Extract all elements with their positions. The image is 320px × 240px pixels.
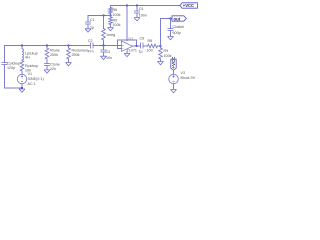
wire feedback loop — [118, 40, 137, 49]
svg-text:Cpickup: Cpickup — [7, 61, 20, 65]
ground under Ctone — [44, 70, 50, 73]
svg-text:4H: 4H — [25, 55, 30, 59]
svg-text:V3: V3 — [181, 71, 186, 75]
resistor Rpickup — [21, 59, 23, 62]
svg-text:1meg: 1meg — [106, 33, 115, 37]
svg-text:C2: C2 — [88, 39, 93, 43]
ground under V3 — [171, 90, 177, 93]
svg-text:22n: 22n — [50, 67, 56, 71]
wire mid signal rail — [5, 45, 90, 47]
wire to out flag — [161, 19, 171, 47]
svg-text:Ckabel: Ckabel — [173, 25, 185, 29]
capacitor Ctone — [44, 64, 50, 66]
node output junction — [159, 45, 161, 47]
resistor R6 — [110, 6, 112, 8]
node pickup junction — [21, 44, 23, 46]
node V+ rail junction — [126, 4, 128, 6]
svg-text:C4: C4 — [139, 7, 144, 11]
svg-text:100n: 100n — [139, 14, 147, 18]
flag out net label — [172, 16, 186, 21]
svg-text:120p: 120p — [7, 66, 15, 70]
ground under R9 — [158, 62, 164, 65]
node bias feed junction — [102, 14, 104, 16]
resistor Rvolumen — [68, 46, 70, 49]
svg-text:V1: V1 — [28, 72, 33, 76]
svg-text:Rtone: Rtone — [50, 48, 60, 52]
wire bias link — [88, 15, 111, 17]
capacitor C2 series — [91, 43, 94, 49]
ground under R5 — [108, 28, 114, 31]
resistor R9 load — [160, 46, 162, 48]
inductor Lpickup — [21, 46, 23, 49]
flag +VCC net label — [180, 3, 198, 8]
node volume junction — [67, 44, 69, 46]
node feedback junction — [135, 45, 137, 47]
svg-text:R5: R5 — [113, 18, 118, 22]
wire op-amp V+ supply — [126, 6, 128, 41]
capacitor C6 series — [141, 43, 144, 49]
svg-text:250k: 250k — [72, 53, 80, 57]
svg-text:R8: R8 — [148, 39, 153, 43]
svg-text:Ctone: Ctone — [50, 62, 60, 66]
svg-text:SINE(0 1): SINE(0 1) — [28, 77, 44, 81]
svg-text:R6: R6 — [113, 8, 118, 12]
resistor Rtone — [46, 46, 48, 49]
node tone junction — [46, 44, 48, 46]
wire top supply rail — [111, 5, 181, 7]
capacitor C1 — [87, 16, 89, 23]
resistor R8 series — [148, 44, 158, 48]
node out junction — [169, 17, 171, 19]
ground under C1 — [85, 29, 91, 32]
capacitor C3 — [103, 46, 105, 51]
ground under C3 — [101, 56, 107, 59]
node V1 ground junction — [21, 87, 23, 89]
svg-text:+VCC: +VCC — [171, 56, 176, 69]
flag +VCC at battery — [171, 59, 176, 70]
svg-text:TL071: TL071 — [127, 48, 137, 52]
svg-text:100k: 100k — [113, 13, 121, 17]
node opamp input junction — [102, 44, 104, 46]
svg-text:C6: C6 — [140, 37, 145, 41]
ground under Rvolume — [66, 63, 72, 66]
resistor R5 — [109, 17, 113, 25]
svg-text:250k: 250k — [50, 53, 58, 57]
ground under C4 — [134, 18, 140, 21]
svg-text:10n: 10n — [106, 56, 112, 60]
svg-text:R9: R9 — [164, 49, 169, 53]
source V3 battery — [173, 70, 175, 74]
wire bottom left rail — [5, 87, 23, 89]
svg-text:600p: 600p — [173, 31, 181, 35]
svg-text:C3: C3 — [106, 50, 111, 54]
op-amp U1 — [122, 41, 133, 52]
node C4 rail junction — [136, 4, 138, 6]
node bias midpoint junction — [109, 14, 111, 16]
capacitor Ckabel — [170, 19, 172, 29]
capacitor Cpickup — [4, 46, 6, 63]
svg-text:+VCC: +VCC — [183, 3, 194, 8]
resistor Rx 1meg bias feed — [103, 16, 105, 29]
svg-text:C1: C1 — [90, 18, 95, 22]
ground under Ckabel — [168, 37, 174, 40]
capacitor C4 — [136, 6, 138, 12]
op-amp V- pin ground — [126, 51, 128, 53]
wire op-amp output — [133, 45, 141, 47]
svg-text:Rvolumen: Rvolumen — [72, 48, 89, 52]
ground under V1 — [19, 89, 25, 92]
svg-text:100k: 100k — [113, 23, 121, 27]
svg-text:AC 1: AC 1 — [28, 82, 36, 86]
svg-text:100: 100 — [147, 48, 153, 52]
source V1 — [17, 74, 27, 84]
svg-text:47n: 47n — [88, 49, 94, 53]
svg-text:Rpickup: Rpickup — [25, 64, 38, 68]
svg-text:Block 9V: Block 9V — [181, 76, 196, 80]
svg-text:out: out — [174, 16, 181, 21]
